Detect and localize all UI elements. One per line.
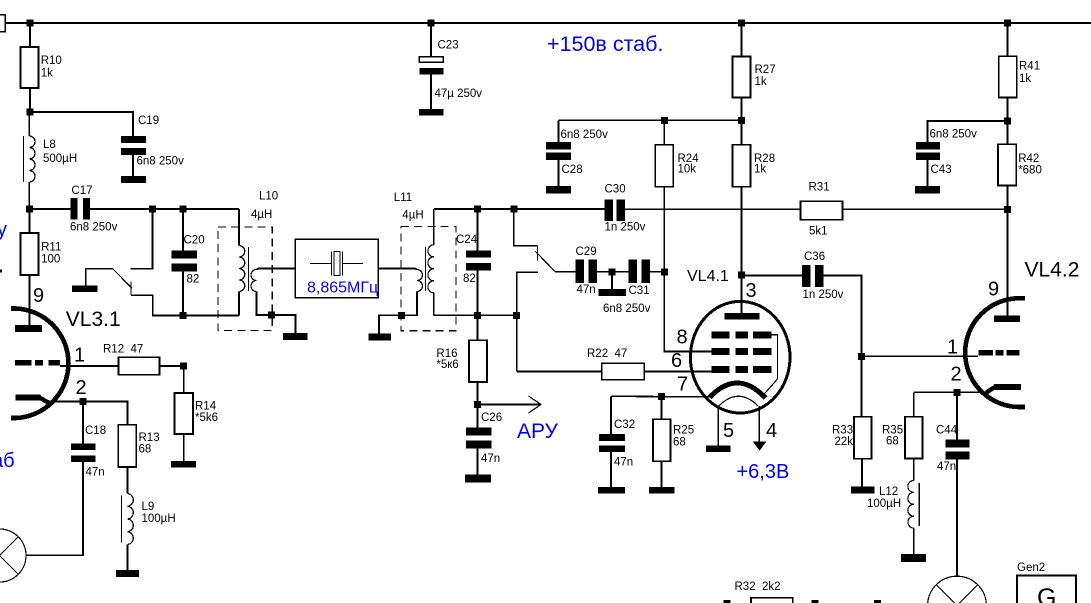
node C36 tap (738, 272, 745, 279)
resistor R41 1k (999, 23, 1041, 121)
node on wire (C20 top) (180, 206, 187, 213)
wire node to C17 (30, 208, 71, 210)
svg-text:R10: R10 (41, 55, 62, 67)
svg-text:22k: 22k (835, 436, 854, 448)
ground below L12 (901, 554, 926, 562)
resistor R28 1k (733, 120, 776, 313)
wire S2 to C29 (555, 271, 576, 273)
wire L10 secondary bottom to ground (257, 292, 296, 334)
wire VL4.2 pin 2 (914, 391, 988, 393)
VL3.1 anode plate (pin 9) (15, 285, 44, 332)
blue label fragment left edge (u) (0, 219, 7, 241)
svg-text:100: 100 (41, 254, 60, 266)
node pin2/C18 (80, 398, 87, 405)
ground below C28 (546, 186, 571, 194)
wire C36 to pin1 bus (824, 276, 862, 357)
svg-text:у: у (0, 219, 7, 241)
ground below C32 (598, 487, 625, 494)
svg-text:2: 2 (76, 377, 87, 399)
svg-text:VL4.1: VL4.1 (687, 268, 729, 285)
VL4.1 grid row 3 (pin 6) (671, 350, 772, 373)
wire ground contact switch 1 (86, 269, 113, 286)
wire crystal to L11 secondary (378, 269, 417, 270)
capacitor C36 1n 250v (742, 251, 844, 301)
svg-text:9: 9 (33, 285, 44, 307)
svg-text:8: 8 (677, 327, 688, 349)
capacitor C24 82 (456, 209, 491, 315)
svg-text:100µH: 100µH (867, 498, 901, 510)
svg-text:+150в стаб.: +150в стаб. (547, 32, 663, 56)
transformer L10 dashed box (218, 227, 272, 331)
capacitor C19 6n8 250v (121, 115, 184, 176)
ground below C26 (465, 475, 491, 483)
svg-text:C44: C44 (936, 425, 958, 437)
svg-text:6n8 250v: 6n8 250v (70, 222, 118, 234)
node R42 / R31 wire (1004, 206, 1011, 213)
svg-text:1k: 1k (1019, 73, 1031, 85)
VL4.1 cathode arc (pin 7) (677, 374, 766, 399)
resistor R33 22k (832, 356, 872, 486)
crystal ZQ 8,865MHz (295, 239, 378, 297)
AGC arrow (478, 396, 559, 443)
svg-text:68: 68 (886, 436, 899, 448)
svg-text:1k: 1k (41, 68, 53, 80)
wire L11 top rail (434, 208, 605, 210)
svg-text:C19: C19 (138, 115, 159, 127)
inductor L12 100uH (908, 481, 919, 555)
svg-text:100µH: 100µH (142, 513, 176, 525)
wire VL4.1 pin 7 (611, 395, 710, 398)
svg-text:47µ 250v: 47µ 250v (435, 88, 483, 100)
capacitor C43 6n8 250v (916, 129, 977, 187)
ground below R33 (851, 486, 901, 510)
VL4.1 pin 4 wire and heater arrow (753, 406, 777, 451)
svg-text:1k: 1k (754, 164, 766, 176)
wire VL3.1 pin1 to R12 (60, 365, 119, 367)
svg-text:82: 82 (187, 274, 200, 286)
transformer L11 dashed box (401, 227, 456, 331)
svg-text:500µH: 500µH (43, 153, 77, 165)
wire node to VL4.1 pin 8 (664, 272, 712, 352)
node ground stub C29/C31 (609, 268, 616, 275)
wire C29 to C31 (597, 271, 629, 273)
svg-text:4: 4 (766, 420, 777, 442)
capacitor C31 6n8 250v (603, 260, 651, 316)
node on wire (switch drop) (149, 206, 156, 213)
svg-text:47n: 47n (614, 457, 633, 469)
svg-text:R14: R14 (195, 401, 217, 413)
resistor R11 100 (21, 209, 62, 325)
ground stub below node (599, 272, 627, 296)
node switch2 drop (510, 206, 517, 213)
node R25 on pin7 wire (658, 393, 665, 400)
svg-text:L12: L12 (879, 486, 898, 498)
resistor R14 *5k6 (175, 366, 219, 461)
VL4.1 internal grid tie line (762, 335, 778, 397)
ground at switch 1 (72, 286, 98, 293)
svg-text:R32 2k2: R32 2k2 (735, 581, 781, 593)
svg-text:1n 250v: 1n 250v (803, 289, 844, 301)
capacitor C32 47n (599, 396, 635, 487)
VL3.1 grid dashes (pin 1) (15, 345, 85, 367)
node on rail above R27 (738, 20, 745, 27)
svg-text:Gen2: Gen2 (1017, 562, 1045, 574)
svg-text:2: 2 (951, 364, 962, 386)
svg-text:6n8 250v: 6n8 250v (930, 129, 978, 141)
wire 6n8 bus C28 to R27 (559, 119, 742, 121)
node at L11 box edge (398, 312, 405, 319)
capacitor C17 6n8 250v (70, 185, 118, 234)
VL4.2 cathode (pin 2) (951, 364, 1022, 393)
transformer L11 4uH (394, 192, 434, 315)
svg-text:5: 5 (723, 420, 734, 442)
mixer circle bottom-right (928, 576, 987, 603)
resistor R27 1k (733, 23, 776, 120)
svg-text:*680: *680 (1018, 165, 1042, 177)
svg-text:6n8 250v: 6n8 250v (603, 303, 651, 315)
svg-text:C26: C26 (481, 412, 502, 424)
svg-text:L9: L9 (142, 501, 155, 513)
resistor R32 2k2 (735, 581, 793, 603)
VL4.1 grid row 2 (pin 8) (677, 327, 772, 356)
resistor R10 (21, 23, 62, 112)
svg-text:68: 68 (139, 444, 152, 456)
svg-text:C24: C24 (456, 234, 478, 246)
node on rail above C23 (428, 20, 435, 27)
svg-text:C20: C20 (184, 235, 205, 247)
wire pin2 cathode net (49, 402, 128, 425)
blue label fragment left edge (ab) (0, 450, 15, 472)
node R24 top (661, 117, 668, 124)
ground below L9 (116, 570, 139, 577)
svg-text:9: 9 (988, 279, 999, 301)
wire node to C19 (30, 112, 133, 136)
svg-text:АРУ: АРУ (517, 420, 559, 443)
svg-text:47n: 47n (937, 461, 956, 473)
svg-text:R13: R13 (139, 432, 160, 444)
node on rail above R10 (27, 20, 34, 27)
svg-text:5k1: 5k1 (809, 226, 828, 238)
ground below L10 (283, 333, 308, 340)
node R41/C43 (1004, 118, 1011, 125)
node below R10 (27, 109, 34, 116)
svg-text:C29: C29 (576, 246, 597, 258)
VL4.1 anode plate (pin 3) (725, 280, 760, 320)
VL3.1 cathode (pin 2) (16, 377, 87, 403)
svg-text:68: 68 (673, 437, 686, 449)
switch S1 blade (113, 269, 132, 295)
svg-text:6n8 250v: 6n8 250v (137, 156, 185, 168)
svg-text:*5k6: *5k6 (195, 412, 218, 424)
svg-text:C32: C32 (614, 419, 635, 431)
ground below C23 (419, 109, 444, 116)
inductor L8 500uH (23, 112, 77, 209)
svg-text:L8: L8 (43, 139, 56, 151)
ground below R14 (171, 461, 196, 468)
capacitor C23 47u 250v (419, 23, 482, 109)
svg-text:1n 250v: 1n 250v (605, 222, 646, 234)
svg-text:L11: L11 (394, 192, 412, 204)
generator Gen2 box (1017, 562, 1076, 603)
switch S2 lower contact to R22 riser (517, 272, 538, 371)
node R22 riser (513, 312, 520, 319)
mixer circle bottom-left (0, 529, 26, 582)
svg-text:L10: L10 (259, 191, 278, 203)
VL4.1 grid row 1 (712, 331, 772, 338)
node C20 bottom (180, 312, 187, 319)
svg-text:R41: R41 (1019, 61, 1040, 73)
+150V label (547, 32, 663, 56)
switch S2 blade (536, 246, 556, 272)
svg-text:C31: C31 (629, 285, 650, 297)
svg-text:R22 47: R22 47 (587, 348, 627, 360)
svg-text:1k: 1k (755, 76, 767, 88)
capacitor C44 47n (936, 392, 970, 576)
tube VL4.1 envelope (687, 268, 790, 413)
svg-text:R12 47: R12 47 (103, 344, 143, 356)
svg-text:6: 6 (671, 350, 682, 372)
node C44 on pin2 wire (954, 389, 961, 396)
ground below R25 (649, 487, 675, 494)
wire L11 bottom rail (434, 314, 517, 316)
resistor R35 68 (882, 392, 923, 480)
svg-text:C28: C28 (562, 164, 583, 176)
svg-text:4µH: 4µH (251, 209, 272, 221)
wire L11 secondary bottom to ground (379, 292, 417, 334)
svg-text:1: 1 (74, 345, 85, 367)
ground below C19 (121, 176, 146, 183)
VL4.2 grid dashes (pin 1) (947, 337, 1020, 359)
svg-text:1: 1 (947, 337, 958, 359)
stray mark left edge (0, 270, 2, 273)
tube VL4.2 envelope (965, 259, 1079, 408)
node on bottom wire right (874, 600, 881, 603)
svg-text:G: G (1037, 584, 1056, 603)
resistor R25 68 (653, 396, 694, 487)
svg-text:3: 3 (746, 280, 757, 302)
node on rail above R41 (1004, 20, 1011, 27)
svg-text:C17: C17 (71, 185, 92, 197)
svg-text:R42: R42 (1018, 153, 1039, 165)
svg-text:R25: R25 (673, 425, 694, 437)
svg-text:C23: C23 (438, 40, 459, 52)
capacitor C26 47n (466, 405, 502, 475)
svg-text:R33: R33 (832, 425, 853, 437)
svg-text:C30: C30 (605, 184, 626, 196)
svg-text:C43: C43 (931, 164, 952, 176)
resistor R24 10k (655, 120, 699, 271)
tube VL3.1 envelope (11, 308, 121, 418)
wire node to C43 (928, 121, 1008, 142)
svg-text:6n8 250v: 6n8 250v (561, 129, 609, 141)
node C24 top (474, 206, 481, 213)
svg-text:C18: C18 (85, 425, 106, 437)
resistor R12 47 (103, 344, 184, 375)
transformer L10 4uH (239, 191, 278, 316)
resistor R22 47 (517, 348, 712, 380)
resistor R13 68 (118, 425, 159, 494)
node R27 bottom (738, 117, 745, 124)
VL4.2 anode plate (pin 9) (988, 279, 1020, 323)
+6,3V label (737, 461, 790, 483)
node on bottom wire middle (812, 600, 819, 603)
svg-text:R31: R31 (809, 182, 830, 194)
svg-text:аб: аб (0, 450, 15, 472)
svg-text:82: 82 (463, 273, 476, 285)
capacitor C20 82 (172, 209, 205, 316)
svg-text:R11: R11 (41, 242, 61, 254)
ground below L11 (369, 334, 392, 341)
svg-text:47n: 47n (577, 284, 596, 296)
node at L10 box edge (268, 312, 275, 319)
ground below C43 (915, 186, 940, 194)
VL4.1 heater arc (719, 396, 759, 406)
svg-text:10k: 10k (678, 164, 697, 176)
capacitor C30 1n 250v (605, 184, 646, 234)
wire L10 secondary top to crystal (257, 269, 296, 270)
svg-text:VL4.2: VL4.2 (1025, 259, 1080, 282)
svg-text:+6,3В: +6,3В (737, 461, 790, 483)
node R12/R14/C20 (180, 363, 187, 370)
resistor R42 *680 (998, 121, 1042, 316)
capacitor C18 47n (71, 402, 106, 479)
svg-text:*5к6: *5к6 (436, 359, 458, 371)
resistor R16 *5k6 (436, 315, 487, 404)
switch S2 input wire (514, 209, 538, 246)
wire C18 to mixer (26, 462, 83, 556)
wire C30 to R31 (625, 208, 801, 210)
wire C17 to L10 top (90, 208, 239, 210)
node L8/R11/C17 (26, 206, 33, 213)
svg-text:7: 7 (677, 374, 688, 396)
wire +150V top rail (0, 22, 1091, 24)
wire switch 1 output to bottom rail (131, 295, 239, 315)
svg-text:C36: C36 (804, 251, 825, 263)
VL4.1 pin 5 wire and ground (706, 406, 734, 452)
svg-text:VL3.1: VL3.1 (66, 308, 121, 331)
svg-text:47n: 47n (86, 467, 105, 479)
svg-text:4µH: 4µH (402, 210, 423, 222)
capacitor C28 6n8 250v (546, 120, 608, 186)
resistor R31 5k1 (801, 182, 1008, 238)
wire top contact switch 1 (131, 209, 153, 269)
node on bottom wire left (724, 600, 731, 603)
node C31/R24/pin8 (661, 268, 668, 275)
node R16/C26/AGC (474, 401, 481, 408)
svg-text:R27: R27 (755, 64, 776, 76)
svg-text:8,865МГц: 8,865МГц (307, 280, 378, 297)
svg-text:47n: 47n (481, 453, 500, 465)
wire VL4.2 pin 1 (862, 355, 979, 357)
wire C31 to pin8 node (650, 271, 664, 273)
inductor L9 100uH (122, 494, 176, 571)
node C24 bottom / R16 (474, 312, 481, 319)
resistor (cut off at left edge) (0, 15, 5, 32)
capacitor C29 47n (576, 246, 598, 296)
node R33 / pin1 (858, 353, 865, 360)
